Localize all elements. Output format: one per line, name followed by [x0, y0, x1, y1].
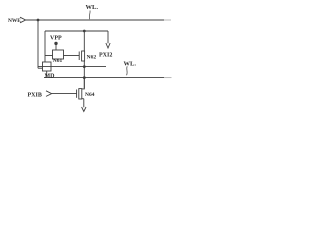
wire PXI2 vertical drop [107, 31, 109, 43]
transistor N64 (channel box) [79, 89, 82, 99]
svg-text:PXIB: PXIB [28, 93, 42, 99]
leader line WL label [88, 11, 91, 20]
wire V2 (vertical from PXI2 net down to transistor MD) [44, 31, 46, 62]
wire WL faded end [164, 19, 171, 21]
node C (junction dot PXI2 net / T2 drain) [83, 30, 86, 33]
arrow output (open arrowhead down) [82, 107, 86, 112]
input terminal NWE (chevron) [20, 17, 26, 23]
node B (junction dot rail1/x=84) [83, 65, 86, 68]
svg-text:NWE: NWE [8, 18, 21, 24]
wire N61 to N62 gate [64, 55, 80, 57]
wire MD source to rail2 [46, 71, 48, 78]
transistor N62 (gate bar) [78, 52, 80, 61]
wire rail2 (sub word line horizontal) [44, 77, 164, 79]
wire N64 source down [82, 99, 84, 108]
wire WL (main horizontal word line) [26, 19, 164, 21]
wire PXIB to N64 gate [52, 93, 77, 95]
wire V1 (vertical from WL node down) [37, 20, 39, 68]
transistor N62 (channel box) [82, 51, 85, 61]
leader line WL. label (lower) [126, 66, 129, 75]
svg-text:N62: N62 [87, 54, 97, 60]
input terminal PXIB (chevron) [46, 91, 52, 97]
wire gate N61 (from V2) [45, 55, 53, 57]
svg-text:WL.: WL. [86, 4, 99, 11]
node D (junction dot rail2/x=84) [83, 76, 86, 79]
wire N62 drain/source vertical [83, 31, 85, 89]
wire rail1 (node ND horizontal rail) [38, 66, 106, 68]
svg-text:VPP: VPP [50, 35, 62, 41]
svg-text:WL.: WL. [124, 60, 137, 67]
wire rail2 faded end [164, 77, 172, 79]
wire PXI2 net horizontal [45, 30, 108, 32]
node A (junction dot on WL at x=38) [37, 19, 40, 22]
wire MD gate elbow from V1 [38, 67, 43, 69]
svg-text:MD: MD [45, 73, 56, 79]
power terminal VPP (dot and stem) [54, 42, 57, 45]
svg-text:N61: N61 [53, 58, 63, 64]
arrow PXI2 (open arrowhead down) [106, 43, 110, 48]
transistor N64 (gate bar) [76, 90, 78, 98]
svg-text:N64: N64 [85, 92, 95, 98]
wire N64 drain jog up to rail2 [82, 78, 85, 89]
transistor MD (box body) [43, 62, 52, 71]
svg-text:PXI2: PXI2 [99, 53, 112, 59]
transistor N61 (box body) [53, 50, 64, 59]
